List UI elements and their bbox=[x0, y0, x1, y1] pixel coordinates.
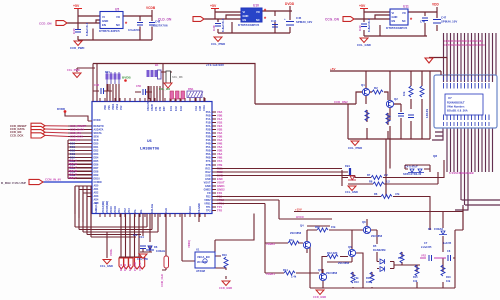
svg-text:CCD_DATA: CCD_DATA bbox=[70, 128, 84, 132]
svg-text:VDD_A: VDD_A bbox=[68, 159, 77, 163]
svg-text:CCL_GND: CCL_GND bbox=[357, 43, 371, 47]
svg-text:U10: U10 bbox=[253, 4, 259, 8]
svg-text:X1: X1 bbox=[196, 248, 200, 252]
svg-text:R17: R17 bbox=[398, 257, 403, 260]
svg-text:VNet Number:: VNet Number: bbox=[447, 105, 465, 109]
svg-text:VSS1: VSS1 bbox=[117, 103, 119, 110]
svg-text:CLK: CLK bbox=[165, 208, 168, 213]
svg-text:100k: 100k bbox=[366, 281, 372, 284]
svg-text:NC: NC bbox=[256, 18, 260, 22]
svg-text:+5V: +5V bbox=[210, 4, 217, 8]
svg-text:R2: R2 bbox=[374, 86, 378, 90]
svg-text:Q8: Q8 bbox=[362, 220, 366, 224]
svg-text:VDD_C: VDD_C bbox=[68, 166, 77, 170]
svg-text:VFBK1: VFBK1 bbox=[266, 272, 276, 276]
svg-text:KT8573/33PC5: KT8573/33PC5 bbox=[386, 26, 408, 30]
svg-text:TP2: TP2 bbox=[217, 209, 223, 213]
svg-text:R13: R13 bbox=[354, 281, 359, 284]
svg-text:VCOB(M2): VCOB(M2) bbox=[106, 201, 109, 213]
svg-text:SP8UN_10V: SP8UN_10V bbox=[441, 20, 457, 24]
svg-text:10k: 10k bbox=[446, 280, 451, 283]
svg-text:C46: C46 bbox=[420, 20, 426, 24]
svg-text:V0A: V0A bbox=[217, 110, 222, 114]
svg-text:0.5uF/6V: 0.5uF/6V bbox=[128, 28, 140, 32]
svg-text:R16: R16 bbox=[446, 276, 451, 279]
svg-text:CCD_ON2: CCD_ON2 bbox=[334, 100, 348, 104]
svg-text:VDDL: VDDL bbox=[109, 248, 113, 256]
svg-text:ESD: ESD bbox=[217, 177, 223, 181]
svg-text:XV2: XV2 bbox=[121, 105, 123, 110]
svg-text:CCD_GND: CCD_GND bbox=[219, 286, 232, 290]
svg-text:VOUT: VOUT bbox=[217, 181, 225, 185]
svg-text:VCOA(M1): VCOA(M1) bbox=[102, 201, 105, 213]
svg-text:CCL_GND: CCL_GND bbox=[345, 190, 358, 194]
svg-text:2SC0858: 2SC0858 bbox=[290, 231, 302, 235]
svg-text:V1B: V1B bbox=[217, 121, 222, 125]
svg-text:C8: C8 bbox=[447, 250, 451, 253]
svg-text:VCOD: VCOD bbox=[114, 206, 117, 213]
svg-text:CK.GND: CK.GND bbox=[198, 203, 201, 213]
svg-text:C43: C43 bbox=[358, 25, 362, 31]
svg-text:SDL_M8: SDL_M8 bbox=[172, 75, 183, 79]
svg-text:PG_A: PG_A bbox=[120, 264, 123, 271]
svg-text:VDD: VDD bbox=[432, 3, 440, 7]
svg-text:+15V: +15V bbox=[295, 208, 302, 212]
svg-text:KT8573/33PC5: KT8573/33PC5 bbox=[238, 23, 260, 27]
svg-text:VR2: VR2 bbox=[421, 255, 427, 258]
svg-text:C14: C14 bbox=[139, 235, 144, 239]
svg-text:R11: R11 bbox=[289, 238, 294, 242]
svg-text:CCD_ON: CCD_ON bbox=[39, 22, 52, 26]
svg-text:Y0k: Y0k bbox=[354, 277, 359, 280]
svg-text:ACLK.E: ACLK.E bbox=[151, 203, 154, 213]
svg-text:10k: 10k bbox=[413, 280, 418, 283]
svg-text:CCM_IN_9V: CCM_IN_9V bbox=[45, 178, 61, 182]
svg-text:RJ6N/0BG8LT: RJ6N/0BG8LT bbox=[447, 101, 465, 105]
svg-text:C7: C7 bbox=[424, 242, 428, 245]
svg-text:TP2: TP2 bbox=[206, 210, 211, 213]
svg-text:C50: C50 bbox=[136, 84, 142, 88]
svg-text:V6B: V6B bbox=[217, 156, 222, 160]
svg-text:AT34M: AT34M bbox=[196, 269, 206, 273]
svg-text:2SC0858: 2SC0858 bbox=[338, 261, 350, 265]
svg-text:TP1: TP1 bbox=[217, 205, 223, 209]
svg-text:R7: R7 bbox=[367, 173, 371, 177]
svg-text:KO1: KO1 bbox=[171, 105, 173, 111]
svg-text:FB1: FB1 bbox=[345, 164, 351, 168]
svg-text:+5V: +5V bbox=[330, 67, 336, 71]
svg-text:2.2: 2.2 bbox=[384, 173, 388, 177]
svg-text:VO: VO bbox=[256, 10, 260, 14]
svg-text:R18: R18 bbox=[366, 277, 371, 280]
svg-text:CCL_PW: CCL_PW bbox=[137, 258, 148, 261]
svg-text:CLD_ON: CLD_ON bbox=[158, 18, 172, 22]
svg-text:CCL_GND: CCL_GND bbox=[100, 264, 113, 268]
svg-text:2.4k: 2.4k bbox=[291, 275, 297, 279]
svg-text:VDDQ: VDDQ bbox=[187, 240, 191, 248]
svg-text:CCD_DCK: CCD_DCK bbox=[70, 135, 83, 139]
svg-text:R15: R15 bbox=[413, 276, 418, 279]
svg-text:100kHz: 100kHz bbox=[156, 249, 166, 253]
svg-text:R14: R14 bbox=[283, 268, 288, 272]
svg-text:DVDD: DVDD bbox=[57, 107, 65, 111]
svg-text:EN: EN bbox=[102, 23, 106, 27]
svg-text:VCOC: VCOC bbox=[110, 206, 113, 213]
svg-text:cf 0.1uF/16V: cf 0.1uF/16V bbox=[206, 63, 224, 67]
svg-text:GND: GND bbox=[243, 14, 249, 18]
svg-text:CD7CD8CD9CDACDBCDCCDDC: CD7CD8CD9CDACDBCDCCDDC bbox=[444, 43, 485, 47]
svg-text:SP8UN_10V: SP8UN_10V bbox=[296, 20, 312, 24]
svg-text:NC: NC bbox=[402, 19, 406, 23]
svg-text:GND(A.Z): GND(A.Z) bbox=[95, 202, 98, 213]
svg-text:PG: PG bbox=[134, 209, 137, 213]
svg-text:V6A: V6A bbox=[217, 152, 222, 156]
svg-text:2SC0858: 2SC0858 bbox=[326, 271, 338, 275]
svg-text:VO: VO bbox=[402, 11, 406, 15]
svg-text:Q8: Q8 bbox=[433, 154, 437, 158]
svg-text:V3B: V3B bbox=[217, 135, 222, 139]
svg-text:BOu3B_0.8_36A: BOu3B_0.8_36A bbox=[447, 109, 468, 113]
svg-text:C39: C39 bbox=[212, 25, 216, 31]
svg-text:FD1: FD1 bbox=[217, 191, 223, 195]
svg-text:EN: EN bbox=[392, 19, 396, 23]
svg-text:V5A: V5A bbox=[217, 145, 222, 149]
svg-text:KO2: KO2 bbox=[176, 105, 178, 111]
svg-text:Q1: Q1 bbox=[361, 83, 365, 87]
svg-text:GND: GND bbox=[392, 15, 398, 19]
svg-text:VCDB: VCDB bbox=[146, 6, 156, 10]
svg-text:V4B: V4B bbox=[217, 142, 222, 146]
svg-text:DVDD: DVDD bbox=[285, 2, 295, 6]
svg-text:C44: C44 bbox=[271, 19, 277, 23]
svg-text:V4A: V4A bbox=[217, 138, 222, 142]
svg-text:CCD_CLK: CCD_CLK bbox=[160, 274, 164, 287]
svg-text:VI: VI bbox=[392, 11, 395, 15]
svg-text:2SC0858: 2SC0858 bbox=[371, 234, 383, 238]
svg-text:VFBK2: VFBK2 bbox=[266, 242, 276, 246]
svg-text:OSCB: OSCB bbox=[152, 104, 154, 111]
svg-text:OSCA7R: OSCA7R bbox=[147, 101, 150, 111]
svg-text:R10: R10 bbox=[222, 253, 227, 257]
svg-text:PG_B: PG_B bbox=[124, 264, 127, 271]
svg-text:XT1: XT1 bbox=[156, 106, 158, 111]
svg-text:KO3: KO3 bbox=[181, 105, 183, 111]
svg-text:16k: 16k bbox=[133, 233, 138, 237]
svg-text:Q6: Q6 bbox=[348, 245, 352, 249]
svg-text:6.8uF/6.3: 6.8uF/6.3 bbox=[85, 22, 89, 36]
svg-text:CCL_PWD: CCL_PWD bbox=[348, 146, 362, 150]
svg-text:D5: D5 bbox=[373, 244, 377, 248]
svg-text:LR386T06: LR386T06 bbox=[140, 146, 160, 151]
svg-text:CCL_PWD: CCL_PWD bbox=[211, 42, 225, 46]
svg-text:B1: B1 bbox=[155, 63, 159, 67]
svg-text:V3A: V3A bbox=[217, 131, 222, 135]
svg-text:U7: U7 bbox=[448, 96, 452, 100]
svg-text:10k: 10k bbox=[402, 91, 406, 96]
svg-text:1uF/35: 1uF/35 bbox=[443, 242, 452, 245]
svg-text:VDD_D: VDD_D bbox=[68, 169, 77, 173]
svg-text:6.8uF/6.3: 6.8uF/6.3 bbox=[367, 18, 371, 32]
svg-text:C40: C40 bbox=[72, 28, 76, 34]
svg-text:RST: RST bbox=[164, 106, 166, 111]
svg-text:CCD_RESET: CCD_RESET bbox=[70, 124, 87, 128]
svg-text:R6: R6 bbox=[374, 192, 378, 196]
svg-text:VDD: VDD bbox=[105, 105, 107, 110]
svg-text:RN1: RN1 bbox=[188, 87, 194, 91]
svg-text:V5B: V5B bbox=[217, 149, 222, 153]
svg-text:CB2TA7U6: CB2TA7U6 bbox=[153, 24, 168, 28]
svg-text:U11: U11 bbox=[403, 5, 409, 9]
svg-text:CCD_GND: CCD_GND bbox=[313, 295, 326, 299]
svg-text:Q2: Q2 bbox=[394, 97, 398, 101]
svg-text:PG_AD: PG_AD bbox=[134, 262, 137, 271]
svg-text:CCL_PWD: CCL_PWD bbox=[67, 69, 80, 72]
svg-text:R10: R10 bbox=[315, 225, 320, 229]
svg-text:Q4: Q4 bbox=[300, 224, 304, 228]
svg-text:KT8573-33PC5: KT8573-33PC5 bbox=[99, 29, 120, 33]
svg-text:DAN222M: DAN222M bbox=[373, 248, 385, 252]
svg-text:V7A: V7A bbox=[217, 159, 222, 163]
svg-text:GND1: GND1 bbox=[217, 184, 225, 188]
svg-text:CCD_PWD: CCD_PWD bbox=[70, 46, 85, 50]
svg-text:CCD_V: CCD_V bbox=[139, 262, 142, 271]
svg-text:XT2: XT2 bbox=[160, 106, 162, 111]
svg-text:R21: R21 bbox=[105, 70, 110, 74]
svg-text:CCB: CCB bbox=[200, 106, 202, 111]
svg-text:D6: D6 bbox=[154, 245, 158, 249]
svg-text:6.8uF/6.3: 6.8uF/6.3 bbox=[221, 18, 225, 32]
svg-text:+: + bbox=[284, 17, 286, 21]
svg-text:13/13S: 13/13S bbox=[425, 109, 429, 118]
svg-text:NC: NC bbox=[116, 23, 120, 27]
svg-text:V0B: V0B bbox=[217, 114, 222, 118]
svg-text:VECA_EN: VECA_EN bbox=[197, 255, 210, 259]
svg-text:Q5: Q5 bbox=[318, 268, 322, 272]
svg-text:BVDB: BVDB bbox=[122, 76, 131, 80]
svg-text:VC3: VC3 bbox=[128, 208, 131, 213]
svg-text:+5V: +5V bbox=[359, 4, 366, 8]
svg-text:FG_A: FG_A bbox=[129, 264, 132, 271]
svg-text:CCD_IN: CCD_IN bbox=[70, 138, 80, 142]
svg-text:VSS: VSS bbox=[109, 105, 111, 110]
svg-text:VDD_B: VDD_B bbox=[68, 162, 77, 166]
svg-text:VC2: VC2 bbox=[124, 208, 127, 213]
svg-text:D_RGI: F1% USP: D_RGI: F1% USP bbox=[1, 181, 26, 185]
svg-text:CLKA: CLKA bbox=[189, 206, 192, 213]
svg-text:150k63: 150k63 bbox=[434, 227, 443, 231]
svg-text:V7B: V7B bbox=[217, 163, 222, 167]
svg-text:2.2uF/35: 2.2uF/35 bbox=[421, 246, 432, 249]
svg-text:CCD_EN: CCD_EN bbox=[70, 131, 81, 135]
svg-text:V1A: V1A bbox=[217, 117, 222, 121]
svg-text:CD0CD1CD2CD3CD4CD5CD6C: CD0CD1CD2CD3CD4CD5CD6C bbox=[444, 39, 483, 43]
svg-text:U5: U5 bbox=[115, 8, 119, 12]
svg-text:CCD_DCK: CCD_DCK bbox=[10, 133, 24, 137]
svg-text:R8: R8 bbox=[369, 180, 373, 184]
svg-text:D4: D4 bbox=[428, 227, 432, 231]
svg-text:VC1: VC1 bbox=[118, 208, 121, 213]
svg-text:S SSSCREEEEBBB: S SSSCREEEEBBB bbox=[449, 171, 474, 175]
svg-text:CCA: CCA bbox=[195, 106, 198, 111]
svg-text:C4 0.47uF: C4 0.47uF bbox=[405, 165, 418, 169]
svg-text:U6: U6 bbox=[147, 139, 152, 143]
svg-text:GND2: GND2 bbox=[217, 188, 225, 192]
svg-text:+5V: +5V bbox=[73, 4, 80, 8]
svg-text:VDD1: VDD1 bbox=[113, 103, 115, 110]
svg-text:VI: VI bbox=[243, 10, 246, 14]
svg-text:EN: EN bbox=[243, 18, 247, 22]
svg-text:2.2: 2.2 bbox=[386, 180, 390, 184]
svg-text:C48: C48 bbox=[94, 83, 100, 87]
svg-text:CCG_ON: CCG_ON bbox=[325, 18, 340, 22]
svg-text:47k: 47k bbox=[395, 192, 400, 196]
svg-text:HVCC: HVCC bbox=[296, 215, 304, 219]
svg-text:FG: FG bbox=[140, 209, 143, 213]
svg-text:V2B: V2B bbox=[217, 128, 222, 132]
svg-text:P7A: P7A bbox=[206, 160, 211, 163]
svg-text:15k: 15k bbox=[331, 225, 336, 229]
svg-text:VDD_F: VDD_F bbox=[68, 176, 77, 180]
svg-text:VDD_E: VDD_E bbox=[68, 173, 77, 177]
svg-text:DVDD: DVDD bbox=[94, 119, 101, 122]
svg-text:V2A: V2A bbox=[217, 124, 222, 128]
